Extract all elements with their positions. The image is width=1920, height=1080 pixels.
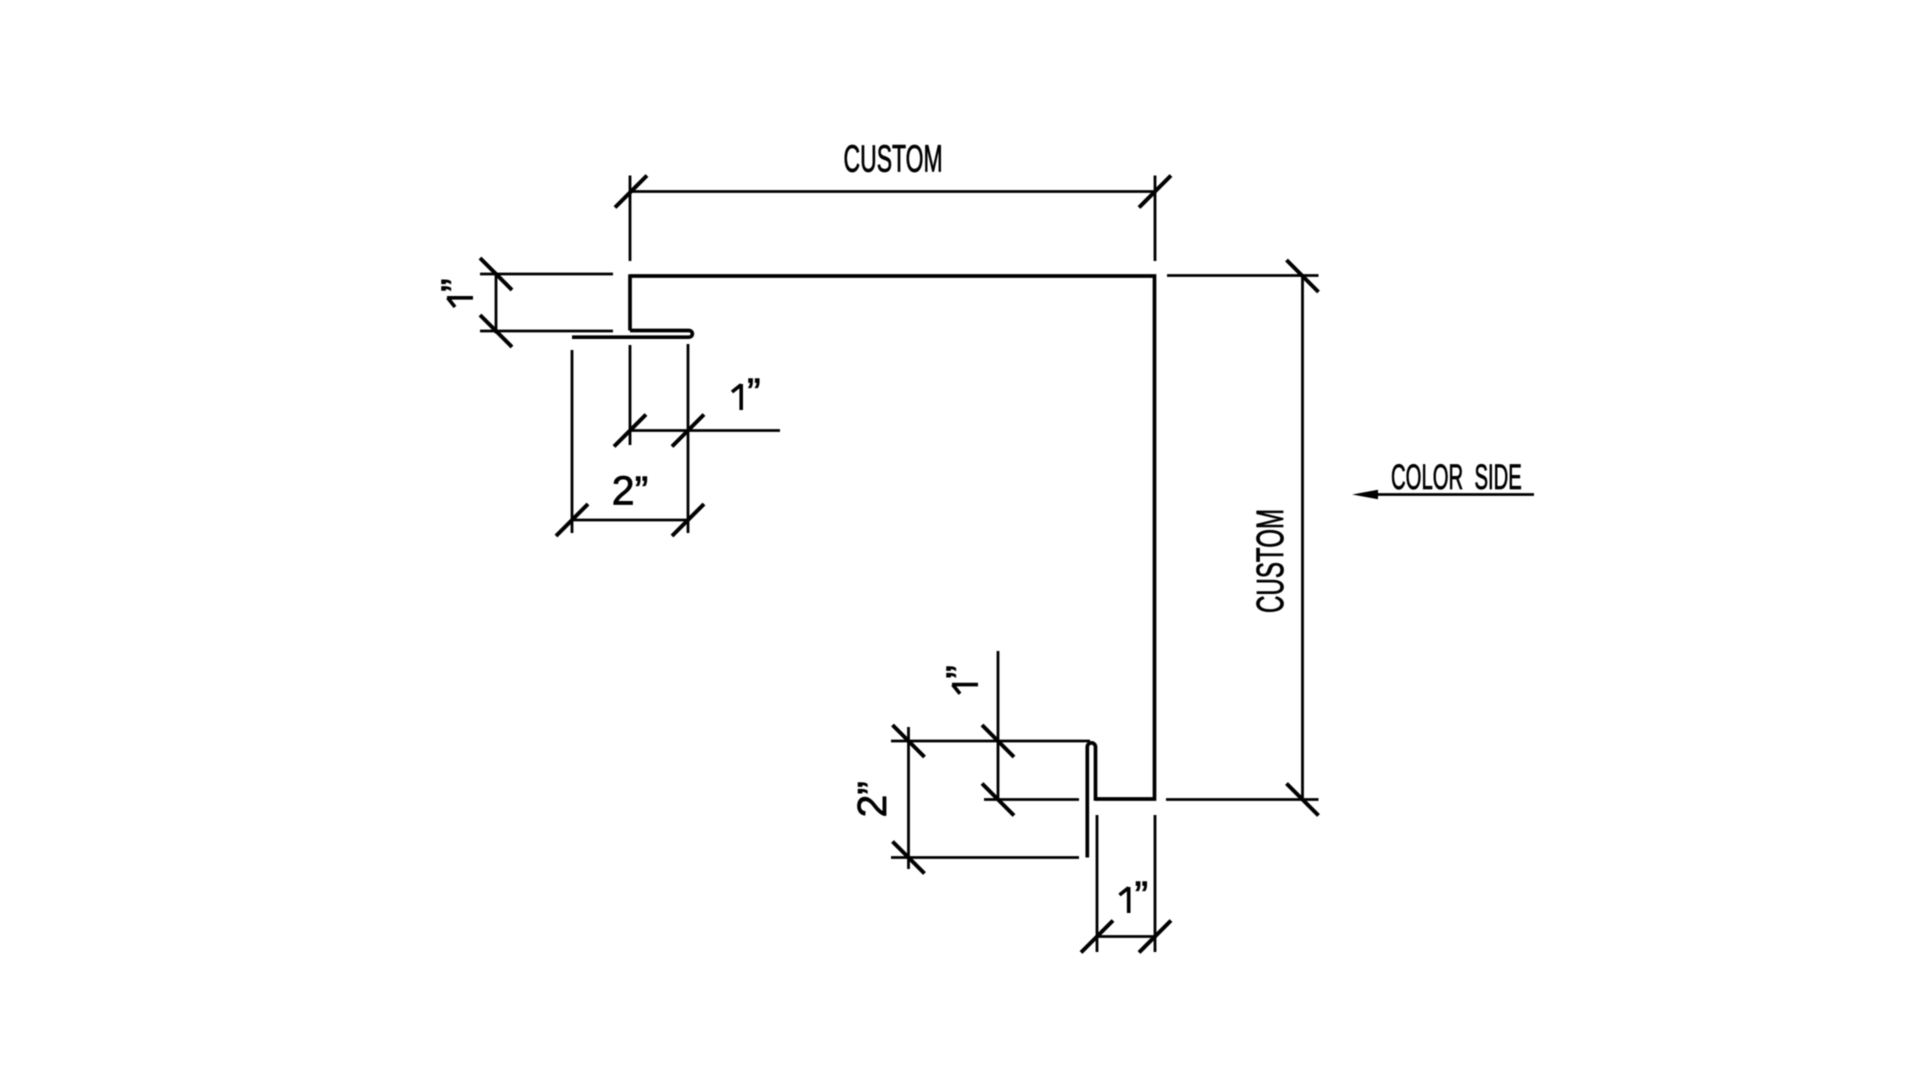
tick bottom: [1287, 784, 1319, 816]
dim line: [1301, 276, 1304, 800]
dim line: [1097, 935, 1155, 938]
svg-text:CUSTOM: CUSTOM: [844, 138, 943, 180]
dim line: [997, 651, 1000, 801]
dim line: [907, 727, 910, 869]
extension line left: [1096, 815, 1099, 952]
leader arrowhead: [1352, 490, 1378, 499]
tick bottom: [893, 842, 925, 874]
dim line: [631, 190, 1155, 193]
dimension: 1in (top hem fold width): [614, 344, 780, 533]
dimension: 2in (bottom hem return length): [891, 725, 1079, 874]
tick right: [1139, 921, 1171, 953]
extension line bottom: [480, 330, 613, 333]
label 1in: [732, 370, 761, 416]
leader arrow shaft: [1377, 493, 1534, 496]
tick bottom: [480, 315, 512, 347]
label 1in (rotated): [433, 278, 479, 307]
dimension: 1in (bottom hem rise): [891, 651, 1090, 816]
dimension: 2in (top hem return length): [556, 350, 704, 536]
svg-text:2”: 2”: [612, 468, 648, 514]
dimension: CUSTOM (right height): [1166, 260, 1319, 816]
extension line bottom: [891, 856, 1079, 859]
extension line top: [480, 273, 613, 276]
tick left: [556, 504, 588, 536]
dimension: CUSTOM (top width): [615, 176, 1171, 262]
tick left: [615, 176, 647, 208]
extension line top: [1167, 274, 1319, 277]
dim line: [572, 519, 688, 522]
svg-text:CUSTOM: CUSTOM: [1248, 509, 1291, 613]
tick top: [1287, 260, 1319, 292]
tick top: [480, 258, 512, 290]
top open hem (1in right, fold, 2in return left): [572, 331, 692, 338]
extension line left: [629, 345, 632, 445]
label 1in: [1120, 873, 1149, 919]
extension line left: [629, 176, 632, 262]
tick top: [893, 725, 925, 757]
tick left: [1081, 921, 1113, 953]
extension line bottom: [984, 798, 1079, 801]
dimension: 1in (top-left leg height): [480, 258, 613, 347]
tick right: [672, 504, 704, 536]
label 1in (rotated): [938, 665, 984, 694]
svg-text:2”: 2”: [849, 781, 895, 817]
extension line right: [687, 344, 690, 533]
tick right: [1139, 176, 1171, 208]
top-left 1in leg: [628, 274, 632, 330]
bottom open hem (1in up, fold, 2in return down): [1087, 743, 1095, 858]
tick left: [614, 415, 646, 447]
svg-text:COLOR SIDE: COLOR SIDE: [1391, 458, 1522, 497]
flashing profile: top face, right face, bottom 1in leg: [630, 276, 1155, 799]
tick right: [672, 415, 704, 447]
dimension: 1in (bottom leg width): [1081, 815, 1171, 953]
tick top: [982, 725, 1014, 757]
dim line: [630, 429, 780, 432]
dim line: [495, 273, 498, 334]
extension line bottom: [1166, 798, 1319, 801]
extension line right: [1154, 815, 1157, 952]
extension line top: [891, 740, 1090, 743]
extension line right: [1154, 176, 1157, 262]
tick bottom: [982, 784, 1014, 816]
extension line left: [571, 350, 574, 533]
